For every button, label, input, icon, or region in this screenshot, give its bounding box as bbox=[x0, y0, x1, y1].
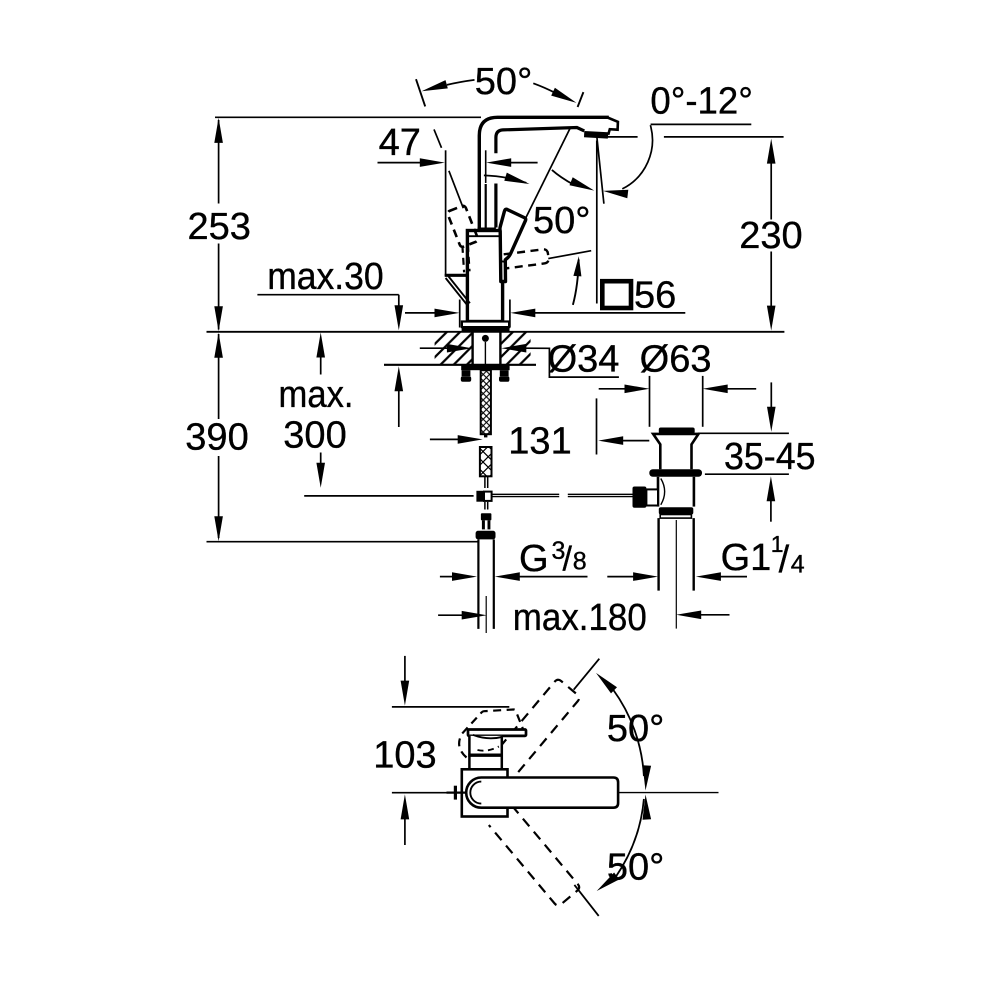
hose hex nut bbox=[476, 531, 496, 540]
dashed pressed lever bbox=[504, 249, 549, 269]
pipe middle line bbox=[485, 150, 487, 183]
drain seal ring bbox=[649, 469, 702, 477]
countertop top line bbox=[207, 331, 785, 333]
supply pipe centerline bbox=[485, 596, 487, 633]
spout tip bbox=[608, 118, 618, 135]
spout outlet vertical line bbox=[596, 141, 598, 304]
dim max180 arrows bbox=[438, 614, 463, 616]
faucet body bbox=[467, 231, 502, 322]
top view dashed spout down bbox=[489, 806, 581, 907]
svg-text:253: 253 bbox=[187, 206, 250, 248]
drain valve inner curve bbox=[661, 479, 665, 505]
countertop hatching bbox=[435, 332, 473, 364]
drain valve body bbox=[657, 477, 660, 507]
mount screw right bbox=[500, 370, 509, 376]
dim 230 extension bbox=[605, 136, 638, 138]
dim dia34 arrows bbox=[420, 347, 448, 349]
braided hose lower bbox=[480, 447, 492, 476]
swing 50 arc upper bbox=[613, 689, 644, 776]
svg-text:50°: 50° bbox=[475, 61, 532, 103]
dim 35-45 upper arrow bbox=[770, 382, 772, 408]
top view handle bar bbox=[468, 730, 526, 736]
lever diagonal line bbox=[525, 128, 570, 219]
raised lever bbox=[500, 209, 526, 281]
svg-text:max.180: max.180 bbox=[513, 597, 647, 639]
svg-text:/: / bbox=[779, 539, 790, 581]
tee stub bbox=[484, 502, 486, 510]
dim max.300 extension bbox=[304, 495, 473, 497]
top view handle neck bbox=[469, 736, 501, 769]
hose connector body bbox=[482, 520, 491, 529]
swivel 50 arc left bbox=[447, 80, 475, 85]
shank center dot bbox=[482, 335, 489, 342]
svg-text:4: 4 bbox=[791, 551, 805, 579]
hook bracket bbox=[445, 274, 468, 277]
supply pipe G3/8 bbox=[477, 539, 479, 629]
drain bottom cap bbox=[659, 507, 694, 514]
lever 50 arc A bbox=[484, 175, 526, 182]
pipe foot bbox=[478, 227, 496, 230]
pull rod to drain bbox=[492, 493, 560, 495]
drain knob bbox=[633, 487, 647, 508]
braided hose upper bbox=[481, 370, 491, 434]
spout outline bbox=[479, 117, 609, 228]
top view spout tube bbox=[466, 778, 618, 808]
svg-text:390: 390 bbox=[185, 417, 248, 459]
pull rod tee bbox=[476, 491, 484, 502]
base plate bbox=[462, 327, 510, 332]
swing 50 tick lower bbox=[574, 885, 598, 916]
hose connector nut bbox=[481, 513, 492, 520]
svg-text:230: 230 bbox=[739, 215, 802, 257]
dim G114 arrows bbox=[607, 576, 634, 578]
svg-text:G: G bbox=[519, 538, 549, 580]
dim 103 upper arrow bbox=[404, 656, 406, 682]
svg-text:300: 300 bbox=[283, 415, 346, 457]
svg-text:35-45: 35-45 bbox=[724, 436, 816, 478]
dim 47 arrows bbox=[378, 162, 421, 164]
drain flange bbox=[653, 434, 698, 469]
dim 0-12 underline bbox=[651, 123, 752, 125]
spout tilt line bbox=[597, 135, 604, 203]
mousseur bbox=[584, 131, 608, 139]
closed lever axis line bbox=[434, 129, 442, 147]
svg-text:50°: 50° bbox=[533, 200, 590, 242]
pressed lever axis line bbox=[548, 251, 591, 259]
svg-text:Ø34: Ø34 bbox=[548, 338, 620, 380]
countertop bottom line bbox=[384, 364, 536, 366]
swivel 50 arc right bbox=[533, 83, 554, 92]
svg-text:47: 47 bbox=[379, 122, 421, 164]
swing 50 arc lower bbox=[616, 799, 644, 877]
top view dashed spout up bbox=[489, 678, 581, 779]
body top inner line bbox=[467, 235, 500, 237]
svg-text:103: 103 bbox=[373, 735, 436, 777]
hose stub bbox=[484, 476, 486, 488]
dim dia63 extensions bbox=[649, 376, 651, 427]
dim 35-45 lower arrow bbox=[767, 476, 776, 501]
lever bottom tick bbox=[500, 260, 505, 263]
top view body square bbox=[462, 769, 508, 816]
shank walls bbox=[471, 332, 473, 365]
body skirt bbox=[462, 322, 509, 328]
dim max.30 leader bbox=[257, 294, 398, 296]
dim max.300 line bbox=[316, 333, 325, 358]
dim 390 line bbox=[218, 334, 220, 419]
dim 103 lower arrow bbox=[401, 794, 410, 819]
dim 253 top extension line bbox=[215, 116, 481, 118]
dim sq56 leader bbox=[405, 312, 436, 314]
swivel 50 tick right bbox=[578, 92, 584, 107]
hose tick bbox=[484, 434, 487, 437]
svg-text:50°: 50° bbox=[607, 708, 664, 750]
dim max.30 lower arrow bbox=[395, 366, 404, 391]
dim 35-45 extensions bbox=[698, 432, 789, 434]
top view pull rod bbox=[447, 791, 466, 793]
svg-text:0°-12°: 0°-12° bbox=[650, 81, 753, 123]
dim dia63 arrows bbox=[599, 388, 626, 390]
dim 230 line bbox=[767, 139, 776, 164]
mount screw left bbox=[462, 370, 471, 376]
top view tube inner arc bbox=[470, 782, 481, 804]
svg-text:G1: G1 bbox=[721, 537, 772, 579]
svg-text:Ø63: Ø63 bbox=[640, 339, 712, 381]
dim 103 extensions bbox=[392, 706, 509, 708]
dim 47 extension bbox=[445, 150, 447, 276]
sq56 square symbol bbox=[602, 281, 631, 308]
lift arrow bbox=[573, 260, 579, 305]
swing 50 tick upper bbox=[574, 659, 600, 690]
dashed lever neck bbox=[462, 246, 464, 272]
swivel 50 tick left bbox=[416, 79, 425, 106]
dashed closed lever bbox=[447, 205, 479, 248]
spout underside bbox=[496, 128, 584, 154]
dim sq56 extensions bbox=[459, 300, 461, 328]
top view dashed handle outline bbox=[459, 709, 524, 757]
svg-text:50°: 50° bbox=[607, 847, 664, 889]
drain knob connector bbox=[646, 489, 658, 505]
dim G38 arrows bbox=[440, 576, 453, 578]
dim 253 line bbox=[218, 120, 220, 204]
drain centerline bbox=[675, 520, 677, 629]
dim 131 arrows bbox=[430, 438, 459, 440]
drain tailpipe bbox=[657, 518, 659, 591]
washer bar bbox=[461, 365, 509, 370]
svg-text:max.: max. bbox=[279, 374, 354, 416]
svg-text:/: / bbox=[563, 541, 573, 579]
svg-text:8: 8 bbox=[573, 548, 587, 576]
lever 50 arc B bbox=[552, 170, 574, 185]
top view centerline bbox=[619, 792, 719, 794]
dim 390 bottom extension bbox=[207, 541, 479, 543]
dim 0-12 arc bbox=[622, 125, 652, 189]
drain flange top bbox=[659, 428, 695, 434]
svg-text:56: 56 bbox=[634, 275, 676, 317]
svg-text:max.30: max.30 bbox=[267, 256, 384, 298]
svg-text:131: 131 bbox=[508, 420, 571, 462]
